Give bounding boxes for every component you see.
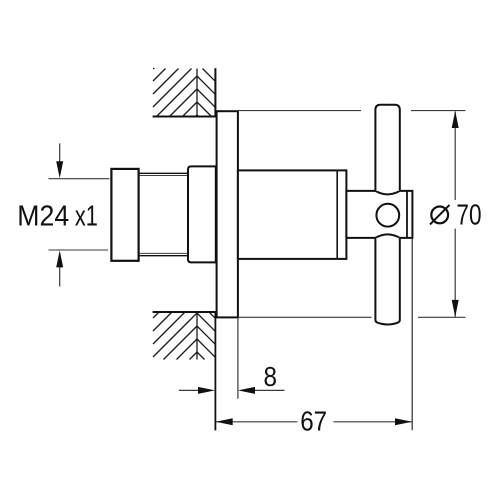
wall section bottom: top edge [153,311,217,313]
flange (escutcheon) [217,111,238,317]
thread crest/root lines [139,172,188,174]
dimension Ø70: dim line [454,112,456,201]
svg-text:M24: M24 [17,200,69,232]
wall section top: bottom edge [153,116,217,118]
wall face line (bottom), continues down as extension line for 67 [214,312,216,430]
svg-text:x1: x1 [75,201,98,233]
dimension line Ø70: top extension [238,110,361,112]
wall section top: hatch lines [153,69,215,117]
handle bar (upper) [375,105,399,191]
svg-text:70: 70 [456,198,481,231]
dimension M24x1: upper arrow [59,143,61,163]
dimension 8: dim line + arrows [179,389,199,391]
handle hub [346,191,412,238]
hub hole circle [376,204,399,227]
dimension Ø70: label [430,205,450,225]
dimension M24x1: lower arrow [59,266,61,287]
threaded spindle: collar A [111,169,138,261]
svg-text:8: 8 [264,363,277,393]
wall face line (top) [214,68,216,116]
dimension Ø70: arrows [452,111,459,128]
extension line for 8 (flange right edge continued) [237,318,239,399]
body step line [336,170,338,259]
svg-text:67: 67 [300,407,327,437]
extension line for 67 (from hub cap) [411,239,413,431]
dimension 67: dim line + arrows [216,421,298,423]
wall section bottom: hatch lines [153,313,215,360]
hub cap line [406,191,408,238]
dimension line Ø70: bottom extension [238,316,372,318]
collar B [188,166,216,262]
wall section bottom: chevron line [196,313,198,360]
valve body [238,170,347,259]
wall section top: chevron line [196,69,198,117]
handle bar (lower) [375,238,399,325]
dimension M24x1: lower extension line [49,249,109,251]
dimension M24x1: upper extension line [49,178,110,180]
